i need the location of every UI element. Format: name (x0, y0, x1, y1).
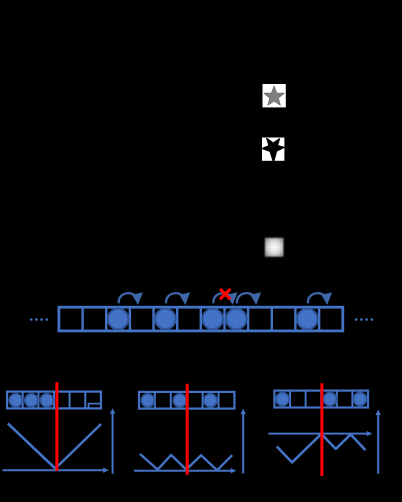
curved arrow cell5 to cell6 (166, 292, 190, 305)
diagram 2 circles cells 1,3,5 (141, 394, 154, 407)
diagram 1 red line (55, 382, 58, 471)
curved arrow cell7 to cell8 (213, 292, 237, 305)
gradient square icon (265, 238, 284, 257)
red X mark (221, 290, 229, 298)
main tape cell dividers (83, 307, 320, 331)
diagram 2 y-axis (242, 412, 244, 474)
left ellipsis dots (30, 318, 48, 321)
diagram 2 red line (186, 384, 189, 475)
diagram 3 x-axis (268, 433, 369, 435)
diagram 2 zigzag curve (140, 454, 232, 470)
main tape outer rectangle (59, 307, 343, 331)
white box for black star icon (262, 138, 284, 161)
diagram 3 zigzag curve (277, 434, 366, 463)
diagram 3 circles cells 1,4,6 (276, 393, 289, 406)
curved arrow cell11 to cell12 (308, 292, 332, 305)
curved arrow cell3 to cell4 (119, 292, 143, 305)
diagram 3 mini tape (274, 391, 368, 408)
diagram 1 mini tape (7, 392, 101, 409)
diagram 1 y-axis (112, 412, 114, 474)
pebble circle in cell 5 (155, 309, 175, 329)
diagram 3 y-axis (377, 413, 379, 474)
diagram 1 cell6 inner corner artifact (89, 404, 100, 409)
pebble circle in cell 7 (203, 309, 223, 329)
diagram 2 x-axis (134, 470, 233, 472)
diagram 1 x-axis (3, 469, 106, 471)
pebble circle in cell 11 (297, 309, 317, 329)
pebble circle in cell 3 (108, 309, 128, 329)
diagram 3 red line (320, 383, 323, 476)
diagram 2 mini tape (139, 392, 234, 409)
white box for gray star icon (263, 84, 286, 107)
right ellipsis dots (355, 318, 373, 321)
diagram 1 circles cells 1-3 (9, 394, 22, 407)
curved arrow cell8 to cell9 (237, 292, 261, 305)
black star icon (point-down, hand-drawn) (262, 139, 284, 162)
pebble circle in cell 8 (226, 309, 246, 329)
gray star icon (264, 86, 284, 105)
diagram 1 V curve (8, 423, 101, 468)
